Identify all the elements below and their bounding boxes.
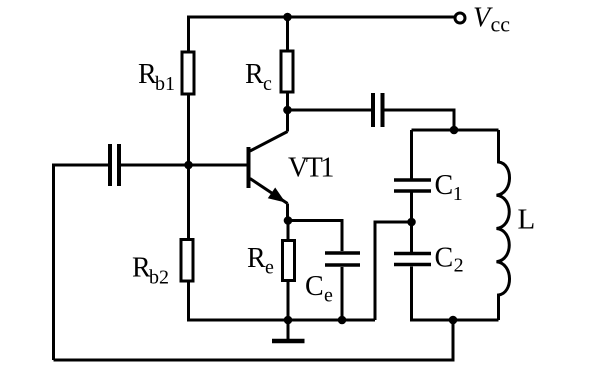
svg-text:1: 1: [453, 183, 463, 205]
wire bottom feedback rail: [54, 320, 454, 360]
label VT1: [288, 153, 333, 184]
svg-text:c: c: [263, 73, 272, 95]
capacitor Ce: [325, 253, 360, 265]
resistor Rb2: [181, 240, 193, 282]
svg-text:2: 2: [454, 255, 464, 277]
label Re: [247, 243, 274, 279]
label Rc: [245, 59, 272, 95]
svg-text:R: R: [245, 59, 264, 90]
label Rb2: [132, 253, 169, 289]
ground: [272, 320, 305, 341]
node top rail / Rc junction: [283, 13, 292, 22]
wire top rail from Rb1 top to Vcc terminal: [189, 17, 456, 51]
resistor Rb1: [182, 52, 194, 94]
resistor Re: [283, 241, 295, 281]
wire C1 top lead: [410, 130, 413, 179]
wire Rb2 bottom lead to ground rail: [189, 283, 376, 321]
node collector junction: [283, 106, 292, 115]
wire emitter node to Ce top: [288, 221, 342, 252]
label Ce: [305, 271, 333, 307]
svg-text:e: e: [324, 285, 333, 307]
wire collector node to output cap: [288, 109, 372, 112]
svg-text:cc: cc: [491, 12, 511, 37]
node C1-C2 midpoint junction: [407, 218, 416, 227]
wire C1 bottom lead to midpoint node: [410, 193, 413, 223]
label C2: [435, 243, 464, 277]
wire C2 bottom lead and tank bottom rail: [412, 267, 499, 321]
node ground junction: [284, 316, 293, 325]
svg-text:b2: b2: [149, 267, 169, 289]
svg-text:L: L: [518, 204, 536, 236]
node tank bottom feedback junction: [449, 316, 458, 325]
label Vcc: [473, 3, 510, 37]
wire output cap to tank top node: [385, 110, 455, 130]
label L: [518, 204, 536, 236]
svg-text:e: e: [265, 257, 274, 279]
label Rb1: [138, 59, 175, 95]
wire Rb2 top lead: [187, 165, 190, 238]
capacitor C2: [394, 254, 431, 265]
wire ground rail riser to C1-C2 midpoint: [375, 222, 412, 320]
node emitter junction: [284, 216, 293, 225]
wire C2 top lead: [410, 222, 413, 252]
svg-text:b1: b1: [155, 73, 175, 95]
svg-text:C: C: [435, 243, 454, 274]
wire Rb1 bottom lead to base node: [187, 96, 190, 166]
wire Re bottom lead: [287, 282, 290, 320]
inductor L: [497, 130, 510, 320]
wire base node to transistor base bar: [121, 164, 247, 167]
wire Re top lead: [287, 221, 290, 240]
node tank top junction: [450, 126, 459, 135]
capacitor C1: [394, 180, 431, 191]
transistor VT1: [249, 110, 288, 221]
capacitor output coupling: [373, 93, 383, 127]
wire Ce bottom lead: [341, 267, 344, 320]
node base junction: [184, 161, 193, 170]
node Ce bottom junction: [338, 316, 347, 325]
capacitor input coupling: [110, 144, 119, 186]
svg-text:C: C: [435, 170, 454, 201]
terminal Vcc: [455, 13, 465, 23]
resistor Rc: [281, 51, 293, 92]
wire Rc top lead: [286, 17, 289, 50]
wire Rc bottom lead to collector node: [286, 94, 289, 111]
wire tank top rail: [412, 129, 499, 132]
svg-text:R: R: [247, 243, 266, 274]
wire input cap left lead and left feedback side: [54, 165, 109, 360]
svg-text:VT1: VT1: [288, 153, 333, 184]
label C1: [435, 170, 463, 205]
svg-text:C: C: [305, 271, 324, 302]
